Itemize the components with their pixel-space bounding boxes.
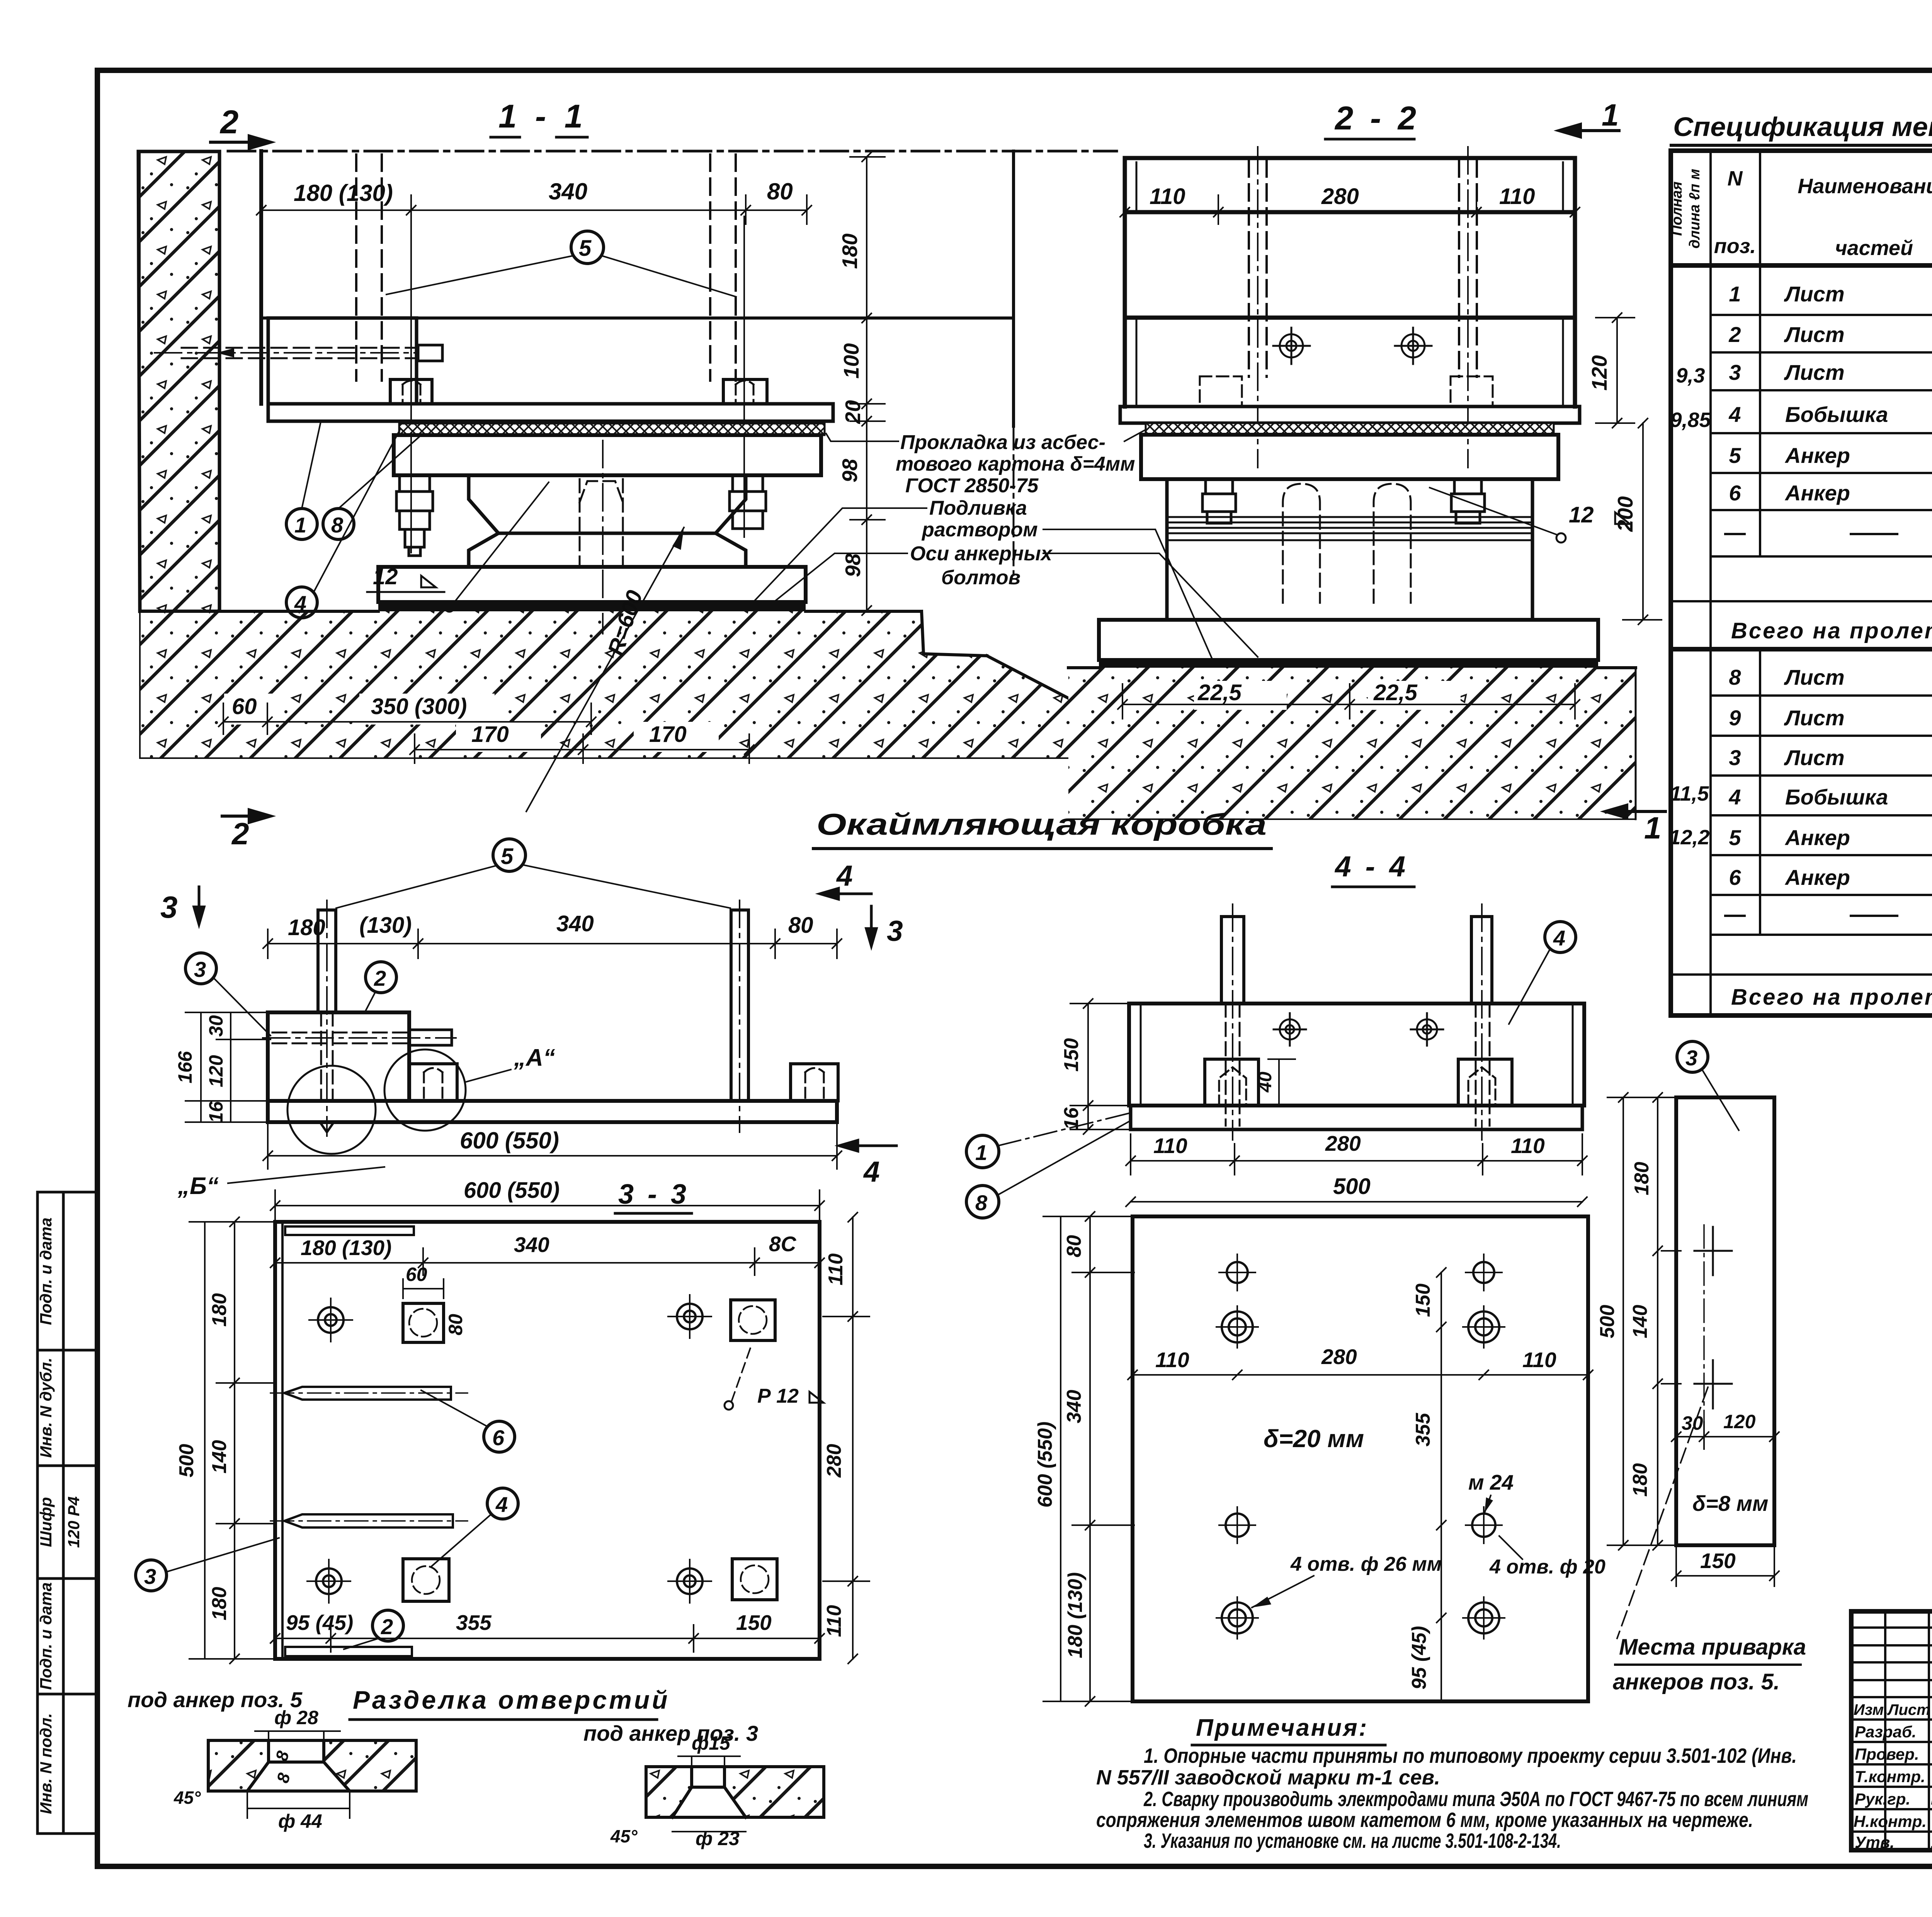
svg-text:166: 166 (174, 1051, 196, 1084)
svg-text:Инв. N дубл.: Инв. N дубл. (37, 1357, 55, 1458)
svg-text:2 - 2: 2 - 2 (1334, 100, 1420, 137)
revision table horizontals (1851, 1628, 1932, 1832)
svg-text:98: 98 (841, 553, 865, 577)
svg-text:340: 340 (1063, 1390, 1085, 1424)
svg-text:95 (45): 95 (45) (1408, 1626, 1430, 1690)
svg-text:500: 500 (1596, 1305, 1619, 1339)
R=600 leader (526, 527, 684, 811)
svg-text:280: 280 (823, 1444, 845, 1478)
svg-text:12: 12 (1569, 502, 1594, 527)
svg-text:Оси анкерных: Оси анкерных (910, 543, 1053, 565)
svg-text:Лист: Лист (1784, 706, 1845, 730)
svg-text:180: 180 (288, 915, 325, 940)
svg-text:40: 40 (1255, 1072, 1276, 1093)
svg-text:Разраб.: Разраб. (1855, 1723, 1917, 1741)
section marker 4 (right of elevation) (839, 1140, 896, 1151)
anchor poz6 horizontal (dashed into wall) (182, 348, 418, 358)
svg-text:болтов: болтов (941, 566, 1020, 589)
bearing lower block (469, 533, 746, 567)
svg-text:Рук.гр.: Рук.гр. (1855, 1790, 1910, 1808)
poz3 dims (1607, 1093, 1679, 1550)
svg-text:350 (300): 350 (300) (371, 694, 467, 719)
mortar strip 2-2 (1099, 660, 1598, 668)
white backing + dim 22,5/22,5 (1194, 681, 1461, 710)
section marker 4 (top right of elevation) (820, 888, 871, 899)
plan dims row (inside top) (270, 1248, 824, 1275)
svg-text:600 (550): 600 (550) (460, 1128, 559, 1153)
svg-text:110: 110 (1153, 1134, 1187, 1158)
svg-text:280: 280 (1321, 184, 1359, 209)
svg-text:3: 3 (1729, 360, 1741, 384)
svg-text:150: 150 (1060, 1038, 1083, 1072)
svg-text:110: 110 (1511, 1134, 1545, 1158)
bearing top plate 2-2 (1141, 435, 1558, 479)
svg-text:110: 110 (1499, 184, 1535, 209)
svg-text:Лист: Лист (1784, 360, 1845, 384)
svg-text:180: 180 (208, 1293, 231, 1327)
plan square bobyshki (403, 1300, 777, 1601)
svg-text:Всего на пролетное строение: Всего на пролетное строение (4 коробки) (1731, 618, 1932, 643)
svg-text:δ=20 мм: δ=20 мм (1264, 1425, 1364, 1453)
svg-text:110: 110 (825, 1253, 847, 1285)
svg-text:180: 180 (1629, 1463, 1651, 1497)
svg-text:8: 8 (331, 513, 344, 537)
svg-text:12,2: 12,2 (1669, 826, 1709, 849)
anchor poz6 bars in plan (284, 1387, 453, 1527)
plan 4-4 inner dims right chain (1437, 1268, 1446, 1701)
svg-text:60: 60 (232, 694, 257, 719)
4-4 plan (1133, 1216, 1588, 1701)
svg-text:Окаймляющая коробка: Окаймляющая коробка (816, 807, 1267, 841)
dim 600(550) above plan (270, 1190, 824, 1219)
svg-text:3: 3 (1685, 1046, 1697, 1070)
svg-text:95 (45): 95 (45) (286, 1611, 353, 1635)
svg-text:5: 5 (1729, 443, 1741, 468)
svg-text:3: 3 (1729, 745, 1741, 770)
callout 4 (4-4) (1545, 922, 1576, 953)
plan holes top-left (316, 1304, 702, 1594)
svg-text:4 отв. ф 26 мм: 4 отв. ф 26 мм (1290, 1553, 1442, 1575)
svg-text:Лист: Лист (1784, 665, 1845, 689)
section marker 2 (top) (211, 136, 270, 148)
svg-text:Анкер: Анкер (1784, 825, 1850, 850)
svg-text:170: 170 (471, 722, 509, 747)
plan dims left (189, 1217, 276, 1664)
svg-text:150: 150 (1700, 1549, 1736, 1573)
svg-text:5: 5 (1729, 825, 1741, 850)
svg-text:110: 110 (1150, 184, 1185, 209)
beam left edge (259, 151, 263, 404)
svg-text:1: 1 (1729, 282, 1741, 306)
svg-text:„А“: „А“ (514, 1044, 555, 1071)
svg-text:9: 9 (1729, 706, 1741, 730)
svg-text:Изм.: Изм. (1854, 1701, 1888, 1718)
box bottom plate 2-2 (1120, 407, 1580, 423)
mid bobyshka (409, 1064, 457, 1101)
plan inner dim 110/280/110 (1128, 1370, 1593, 1379)
svg-text:2: 2 (1728, 322, 1741, 347)
left stamp column boxes (37, 1192, 94, 1834)
right anchor bolt poz5 (731, 910, 748, 1101)
svg-text:Лист: Лист (1784, 745, 1845, 770)
svg-text:Всего на пролетное строение: Всего на пролетное строение (4 коробки) (1731, 985, 1932, 1010)
svg-text:4 - 4: 4 - 4 (1334, 850, 1408, 883)
nuts 2-2 (1202, 479, 1485, 523)
dim 500 (1126, 1197, 1587, 1206)
svg-text:180 (130): 180 (130) (301, 1236, 391, 1260)
detail circle B (287, 1066, 376, 1154)
svg-text:Лист: Лист (1784, 282, 1845, 306)
svg-text:170: 170 (649, 722, 687, 747)
svg-text:22,5: 22,5 (1197, 680, 1242, 705)
svg-text:сопряжения элементов швом к: сопряжения элементов швом катетом 6 мм, … (1096, 1808, 1753, 1832)
dim 110/280/110 on beam (1120, 195, 1580, 224)
svg-text:3: 3 (194, 957, 206, 981)
weld cross marks (1694, 1227, 1732, 1408)
4-4 holes in back wall (1274, 1013, 1443, 1046)
svg-text:98: 98 (838, 459, 862, 483)
dowels dashed 2-2 (1283, 484, 1411, 603)
svg-text:3: 3 (160, 890, 178, 924)
anchor bolts hidden in beam (1249, 160, 1477, 377)
svg-text:Шифр: Шифр (37, 1497, 55, 1547)
svg-text:45°: 45° (173, 1788, 201, 1808)
bearing centre axis (602, 441, 604, 634)
white backing for foundation dims (224, 694, 719, 752)
signature rows (1854, 1723, 1932, 1851)
callout 2 (plan) (372, 1610, 403, 1641)
dim 110/280/110 under 4-4 (1126, 1134, 1587, 1175)
callout 3 (elevation) (185, 953, 216, 984)
anchor poz6 dashed in box (272, 1032, 409, 1043)
svg-text:2: 2 (381, 1614, 393, 1639)
foundation 2-2 (1068, 668, 1636, 819)
svg-text:3. Указания по установке см: 3. Указания по установке см. на листе 3.… (1144, 1829, 1561, 1852)
4-4 bolts (1221, 917, 1244, 1004)
svg-text:4: 4 (294, 591, 306, 616)
box top plate poz1 (268, 404, 833, 421)
svg-text:180: 180 (1631, 1162, 1653, 1196)
svg-text:Н.контр.: Н.контр. (1854, 1812, 1927, 1830)
elevation dim 600(550) (263, 1124, 842, 1169)
poz2 strips top/bottom (285, 1226, 414, 1235)
asbestos gasket 2-2 (1146, 423, 1554, 435)
svg-text:Бобышка: Бобышка (1785, 402, 1888, 427)
svg-text:м 24: м 24 (1468, 1470, 1514, 1494)
4-4 bobyshki (1205, 1059, 1259, 1106)
svg-text:500: 500 (175, 1444, 198, 1478)
dim 150 below (1672, 1548, 1779, 1586)
svg-text:120: 120 (1723, 1411, 1756, 1432)
svg-text:11,5: 11,5 (1670, 782, 1709, 805)
svg-text:Подп. и дата: Подп. и дата (37, 1582, 55, 1690)
svg-text:80: 80 (788, 913, 813, 938)
elevation dims left (185, 1012, 270, 1122)
stamp labels rotated (37, 1218, 83, 1814)
svg-text:3: 3 (887, 915, 903, 947)
svg-text:ф 28: ф 28 (274, 1707, 318, 1728)
plan dims bottom (270, 1625, 824, 1652)
svg-text:Инв. N подл.: Инв. N подл. (37, 1713, 55, 1814)
svg-text:355: 355 (456, 1611, 492, 1635)
svg-text:45°: 45° (610, 1826, 638, 1846)
svg-text:1. Опорные части приняты по: 1. Опорные части приняты по типовому про… (1144, 1744, 1797, 1767)
svg-text:340: 340 (514, 1233, 549, 1257)
svg-text:ф15: ф15 (692, 1732, 731, 1754)
elevation dims top (263, 929, 842, 958)
svg-text:4: 4 (863, 1155, 880, 1188)
plan dims right (823, 1213, 869, 1664)
right dim chain of 1-1 (850, 152, 885, 615)
svg-text:ф 23: ф 23 (696, 1828, 740, 1849)
svg-text:150: 150 (1412, 1284, 1434, 1317)
callout 6 (484, 1421, 515, 1452)
svg-text:под анкер поз. 3: под анкер поз. 3 (583, 1721, 758, 1745)
svg-text:60: 60 (406, 1264, 427, 1285)
dash row 1 (1725, 533, 1932, 535)
labels between views (896, 431, 1135, 589)
bobyshki dashed in section (1200, 376, 1493, 407)
countersink detail right (646, 1767, 692, 1817)
svg-text:1: 1 (294, 513, 306, 537)
section marker 3 (right) (866, 906, 876, 946)
svg-text:4: 4 (495, 1492, 508, 1517)
svg-text:180: 180 (838, 233, 862, 269)
svg-text:4: 4 (1553, 926, 1565, 950)
svg-text:140: 140 (208, 1440, 231, 1474)
svg-text:180 (130): 180 (130) (1064, 1572, 1087, 1658)
svg-text:120: 120 (205, 1055, 227, 1087)
leaders of labels (750, 430, 1258, 662)
svg-text:Лист: Лист (1887, 1701, 1930, 1718)
bearing bottom plate (378, 567, 806, 602)
svg-text:N: N (1728, 167, 1743, 190)
poz3 plate outline (1676, 1097, 1774, 1545)
svg-text:12: 12 (373, 564, 398, 589)
svg-text:Подливка: Подливка (929, 497, 1027, 519)
horizontal line at box top (261, 316, 1014, 320)
svg-text:340: 340 (556, 911, 594, 936)
dim 60 above square (403, 1279, 444, 1298)
leader to weld note (1617, 1387, 1708, 1638)
svg-text:80: 80 (1063, 1235, 1085, 1257)
inner dowel dashed (580, 479, 623, 564)
svg-text:Примечания:: Примечания: (1196, 1715, 1368, 1741)
svg-text:20: 20 (841, 400, 865, 424)
anchor bolt poz5 hidden lines (left) (356, 155, 736, 381)
svg-text:1: 1 (1602, 98, 1619, 132)
svg-text:4: 4 (836, 859, 853, 892)
concrete pier wall hatch (138, 151, 219, 611)
svg-text:N 557/II заводской марки т-: N 557/II заводской марки т-1 сев. (1096, 1766, 1440, 1789)
section marker 1 (bottom) (1605, 805, 1665, 818)
svg-text:Анкер: Анкер (1784, 865, 1850, 890)
svg-text:1 - 1: 1 - 1 (498, 98, 587, 135)
dim 60 / 350(300) in foundation (219, 703, 596, 734)
asbestos gasket (399, 424, 825, 435)
svg-text:Т.контр.: Т.контр. (1855, 1767, 1925, 1786)
callout 5 (elevation) (493, 839, 526, 871)
svg-text:(130): (130) (359, 913, 412, 938)
svg-text:Бобышка: Бобышка (1785, 785, 1888, 809)
beam top dash-dot axis line (228, 150, 1117, 153)
svg-text:2: 2 (374, 966, 386, 990)
svg-text:280: 280 (1321, 1345, 1357, 1369)
dims left of 4-4 (1070, 999, 1132, 1134)
dim 170/170 in foundation (410, 734, 754, 763)
svg-text:110: 110 (1155, 1348, 1189, 1372)
callout 2 (elevation) (366, 962, 396, 993)
box side plate poz2 (left) (268, 318, 417, 404)
svg-text:2: 2 (231, 816, 249, 851)
dim 40 (1268, 1059, 1295, 1106)
revision table verticals (1885, 1611, 1932, 1850)
svg-text:Анкер: Анкер (1784, 443, 1850, 468)
svg-text:6: 6 (1729, 865, 1741, 890)
svg-text:16: 16 (205, 1101, 227, 1123)
svg-text:120 Р4: 120 Р4 (65, 1496, 83, 1548)
svg-text:8: 8 (1729, 665, 1741, 689)
section marker 1 (top) (1559, 124, 1619, 137)
bobyshka poz4 left (390, 379, 432, 404)
dim line 180(130)/340/80 (257, 195, 811, 224)
box (left part of elevation) (268, 1012, 409, 1101)
bearing top plate (394, 435, 821, 475)
svg-text:30: 30 (205, 1015, 227, 1037)
svg-text:80: 80 (445, 1314, 466, 1335)
svg-text:150: 150 (736, 1611, 772, 1635)
bearing body 2-2 (1167, 479, 1532, 620)
svg-text:Разделка отверстий: Разделка отверстий (353, 1686, 670, 1714)
table header texts (1669, 169, 1703, 248)
revision header texts (1854, 1701, 1932, 1718)
svg-text:Полная: Полная (1669, 182, 1685, 236)
callout 4 (plan) (487, 1488, 518, 1519)
svg-text:8: 8 (975, 1191, 988, 1215)
svg-text:500: 500 (1333, 1174, 1371, 1199)
svg-text:110: 110 (823, 1605, 845, 1637)
svg-text:Р 12: Р 12 (757, 1385, 799, 1407)
4-4 base plate (1131, 1106, 1582, 1129)
svg-text:3: 3 (144, 1564, 156, 1589)
svg-text:Провер.: Провер. (1855, 1745, 1919, 1763)
svg-text:частей: частей (1835, 236, 1913, 260)
callout 3 (1677, 1041, 1708, 1072)
dim 200 right (1623, 418, 1662, 624)
svg-text:355: 355 (1412, 1413, 1434, 1447)
beam outline 2-2 (1125, 158, 1575, 407)
svg-text:4 отв. ф 20: 4 отв. ф 20 (1489, 1556, 1605, 1578)
bobyshka poz4 right (723, 379, 767, 404)
svg-text:4: 4 (1728, 402, 1741, 427)
left anchor bolt poz5 (318, 910, 336, 1012)
svg-text:Места приварка: Места приварка (1619, 1635, 1806, 1660)
callout 3 (plan) (136, 1560, 167, 1591)
svg-text:6: 6 (1729, 481, 1741, 505)
plan holes (1222, 1262, 1499, 1633)
svg-text:Подп. и дата: Подп. и дата (37, 1218, 55, 1325)
dim 120 right (1596, 313, 1634, 428)
svg-text:тового картона δ=4мм: тового картона δ=4мм (896, 453, 1135, 475)
svg-text:2: 2 (219, 104, 238, 141)
svg-text:5: 5 (579, 236, 592, 261)
svg-text:раствором: раствором (921, 519, 1038, 541)
bearing bottom plate 2-2 (1099, 620, 1598, 660)
plan 3-3 outline (275, 1222, 820, 1659)
dim 30/120 (1672, 1422, 1779, 1449)
svg-text:80: 80 (767, 179, 793, 204)
svg-text:9,85: 9,85 (1670, 408, 1711, 432)
svg-text:длина ℓп м: длина ℓп м (1687, 169, 1703, 248)
table grid (1671, 151, 1932, 1015)
anchor nuts below plate (left) (396, 475, 766, 556)
svg-text:Наименование: Наименование (1798, 175, 1932, 198)
svg-text:„Б“: „Б“ (177, 1173, 219, 1199)
svg-text:22,5: 22,5 (1373, 680, 1418, 705)
svg-text:Лист: Лист (1784, 322, 1845, 347)
svg-text:Анкер: Анкер (1784, 481, 1850, 505)
svg-text:поз.: поз. (1714, 235, 1756, 258)
right bobyshka (791, 1064, 838, 1101)
svg-text:6: 6 (492, 1425, 505, 1450)
svg-text:100: 100 (839, 343, 863, 379)
svg-text:110: 110 (1522, 1348, 1556, 1372)
4-4 side view box (1129, 1004, 1584, 1106)
callout 5 (571, 231, 604, 264)
svg-text:2. Сварку производить электр: 2. Сварку производить электродами типа Э… (1143, 1788, 1808, 1811)
svg-text:анкеров поз. 5.: анкеров поз. 5. (1613, 1669, 1780, 1694)
svg-text:120: 120 (1587, 355, 1611, 391)
svg-text:4: 4 (1728, 785, 1741, 809)
svg-text:600 (550): 600 (550) (464, 1178, 560, 1203)
svg-text:1: 1 (1644, 811, 1662, 845)
section marker 2 (bottom) (222, 810, 270, 822)
svg-text:8C: 8C (769, 1232, 797, 1256)
svg-text:9,3: 9,3 (1676, 364, 1705, 387)
bearing upper tapered block (469, 475, 746, 533)
countersink detail left (208, 1740, 269, 1791)
svg-text:140: 140 (1629, 1305, 1651, 1339)
table data block 2 (1728, 665, 1932, 890)
plan 4-4 outer dims left (1043, 1212, 1134, 1706)
base plate poz1 (elevation) (268, 1101, 837, 1122)
svg-text:Прокладка из асбес-: Прокладка из асбес- (900, 431, 1105, 454)
svg-text:600 (550): 600 (550) (1034, 1422, 1056, 1508)
dash row 2 (1725, 915, 1932, 917)
mortar strip (black) (378, 602, 806, 611)
svg-text:δ=8 мм: δ=8 мм (1692, 1491, 1768, 1516)
detail circle A (384, 1050, 466, 1131)
svg-text:1: 1 (975, 1140, 987, 1165)
svg-text:280: 280 (1325, 1131, 1361, 1155)
svg-text:Спецификация металла окаймля: Спецификация металла окаймляющих коробок (1673, 112, 1932, 142)
beam right edge (1012, 151, 1015, 426)
holes in web (circles) (1273, 328, 1432, 364)
svg-text:5: 5 (501, 844, 514, 869)
svg-text:180: 180 (208, 1587, 231, 1621)
svg-text:180 (130): 180 (130) (294, 180, 393, 206)
callout 4 (286, 587, 317, 618)
callouts 1 and 8 (4-4) (966, 1135, 999, 1168)
svg-text:ГОСТ 2850-75: ГОСТ 2850-75 (905, 475, 1039, 497)
anchor bolt axes (411, 216, 744, 553)
foundation hatch (140, 611, 1080, 758)
svg-text:ф 44: ф 44 (278, 1810, 322, 1832)
callouts 1 and 8 (286, 509, 317, 539)
table data block 1 (1728, 282, 1932, 505)
svg-text:Утв.: Утв. (1855, 1833, 1895, 1851)
svg-text:340: 340 (549, 179, 587, 204)
